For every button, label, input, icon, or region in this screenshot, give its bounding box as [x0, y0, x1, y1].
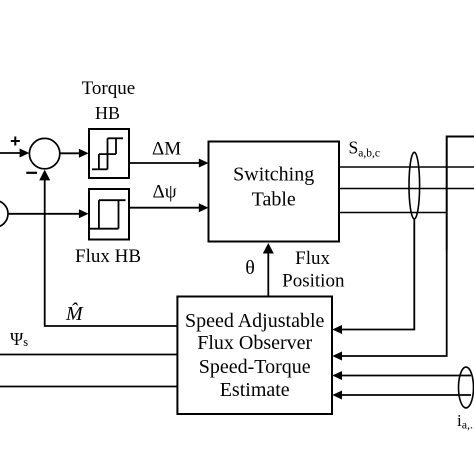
svg-text:Flux Observer: Flux Observer: [197, 332, 312, 354]
svg-text:Table: Table: [252, 189, 296, 211]
symbol: 3-level hysteresis staircase inside torque HB: [92, 138, 123, 169]
wire: estimated torque M-hat feedback from observer to summing junction with arrowhead: [39, 170, 177, 326]
wire: inverter-side feedback down into observer with arrowhead: [332, 250, 446, 361]
svg-text:M̂: M̂: [65, 302, 84, 325]
block: inverter box (partial, cut at right edge): [447, 137, 474, 251]
svg-text:Speed Adjustable: Speed Adjustable: [185, 310, 325, 332]
wire: motor current a into observer with arrowhead: [332, 371, 471, 380]
svg-text:ΔM: ΔM: [152, 139, 181, 160]
svg-text:Flux: Flux: [295, 248, 330, 269]
wire: switching signal Sb: [339, 188, 474, 190]
block: Speed Adjustable Flux Observer: [177, 297, 332, 415]
wire: switching signal Sa: [339, 166, 474, 168]
svg-text:Speed-Torque: Speed-Torque: [199, 356, 311, 378]
wire: flux error into flux HB with arrowhead: [8, 209, 89, 218]
wire: stator flux psi-s input into observer: [0, 354, 177, 356]
wire: lower-left input into observer: [0, 386, 177, 388]
svg-text:Estimate: Estimate: [220, 379, 290, 401]
wire: motor current b into observer with arrowhead: [332, 391, 471, 400]
wire: switching-signal feedback from bundle down into observer with arrowhead: [332, 220, 414, 335]
wire: torque reference input with arrowhead into summing junction: [0, 149, 29, 158]
block: Torque hysteresis comparator box: [89, 129, 129, 178]
block: Flux hysteresis comparator box: [89, 189, 129, 240]
wire: delta psi from flux HB to switching table with arrowhead: [129, 203, 209, 212]
summing junction S2 (flux, cut off at left edge): [0, 200, 8, 227]
plus sign at summing junction input: [11, 137, 20, 146]
svg-text:Position: Position: [282, 271, 345, 292]
summing junction S1 (torque error): [29, 138, 59, 168]
svg-text:θ: θ: [245, 257, 255, 279]
wire: summing junction to Torque HB with arrowhead: [60, 149, 89, 158]
svg-text:Δψ: Δψ: [153, 182, 177, 203]
svg-text:Switching: Switching: [233, 164, 314, 186]
bundle ellipse over switching signals: [409, 152, 420, 219]
block: Switching Table: [209, 142, 340, 242]
symbol: 2-level hysteresis loop inside flux HB: [90, 200, 126, 229]
svg-text:Flux HB: Flux HB: [75, 246, 141, 267]
minus sign at feedback input: [26, 172, 37, 174]
svg-text:Torque: Torque: [82, 78, 136, 99]
wire: switching signal Sc: [339, 212, 447, 214]
svg-text:HB: HB: [95, 103, 120, 123]
wire: theta flux position from observer up into switching table with arrowhead: [263, 243, 274, 297]
wire: delta M from torque HB to switching table with arrowhead: [129, 159, 209, 168]
bundle ellipse over current measurement (cut at right edge): [459, 367, 474, 408]
